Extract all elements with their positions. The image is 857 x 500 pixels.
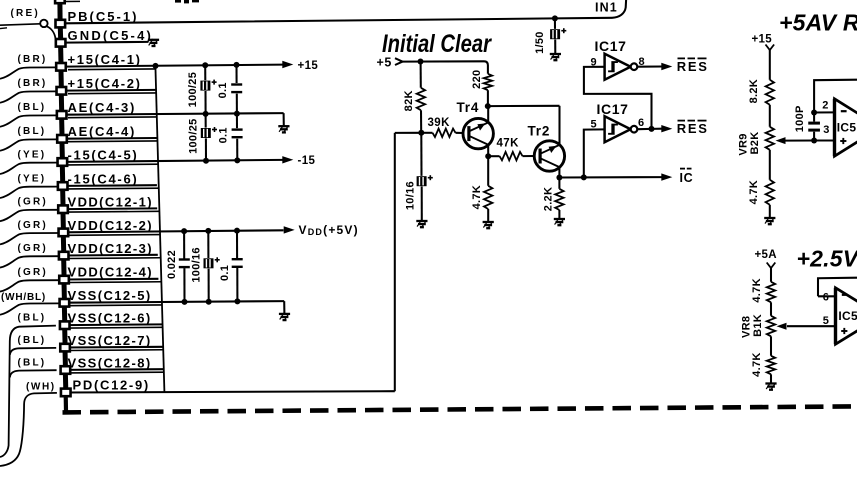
terminal (cut at top edge) <box>55 0 65 3</box>
svg-text:(BR): (BR) <box>18 78 48 89</box>
label plus IC5 <box>840 140 846 142</box>
svg-text:100P: 100P <box>794 105 806 132</box>
wire VDD row (C12-3) <box>65 254 158 257</box>
label box top edge below AE(C4-4) <box>68 140 157 143</box>
wire pin2 to IC5 <box>814 111 834 113</box>
terminal +15(C4-1) <box>56 63 66 71</box>
svg-text:+5A: +5A <box>755 249 777 261</box>
capacitor 0.1 lower (AE to -15) <box>236 114 238 129</box>
svg-text:100/25: 100/25 <box>188 118 200 153</box>
terminal VSS(C12-6) <box>60 321 70 329</box>
junction dot pin2 node <box>811 110 817 116</box>
svg-text:6: 6 <box>638 117 644 129</box>
svg-text:(BL): (BL) <box>18 335 47 346</box>
label minus IC5 lower <box>842 294 848 296</box>
op-amp IC17 lower gate (Schmitt inverter) <box>605 116 631 142</box>
ground (GND C5-4) <box>148 39 159 41</box>
wire +15 row (C4-2) <box>65 89 156 92</box>
wire GND row <box>65 41 149 44</box>
svg-text:+15(C4-1): +15(C4-1) <box>68 52 142 67</box>
svg-text:+15(C4-2): +15(C4-2) <box>68 76 142 91</box>
svg-text:4.7K: 4.7K <box>751 352 763 376</box>
chevron +5A feed <box>767 263 776 269</box>
wire left entry row VDD(C12-3) <box>0 256 59 267</box>
junction dot +15 / 100u25 <box>202 62 208 68</box>
svg-text:VR8: VR8 <box>740 316 752 338</box>
label box top edge below -15(C4-6) <box>68 187 159 190</box>
junction dot +15 / 0.1 <box>234 62 240 68</box>
wire PD row (C12-9) to riser <box>65 391 395 392</box>
wire IC5 feedback lower <box>818 278 857 297</box>
terminal VDD(C12-3) <box>59 252 69 260</box>
svg-text:(BL): (BL) <box>18 313 47 324</box>
svg-text:VDD(+5V): VDD(+5V) <box>299 223 359 237</box>
terminal VDD(C12-1) <box>58 205 68 213</box>
svg-text:47K: 47K <box>497 138 520 150</box>
svg-text:VDD(C12-1): VDD(C12-1) <box>68 195 154 210</box>
ground (VSS rail) <box>283 301 285 314</box>
svg-text:+15: +15 <box>752 34 773 46</box>
wire VDD row (C12-1) <box>65 207 157 210</box>
svg-text:(WH): (WH) <box>26 381 56 392</box>
svg-text:RES: RES <box>677 59 709 74</box>
svg-text:+2.5V: +2.5V <box>797 245 857 271</box>
capacitor 100/16 electrolytic <box>207 231 209 258</box>
branch to VSS(C12-8) row <box>10 370 57 377</box>
wire PB row to IN1 with curve up <box>65 0 626 23</box>
svg-text:PB(C5-1): PB(C5-1) <box>68 9 139 24</box>
capacitor 100/25 upper <box>204 65 206 80</box>
chevron +15 feed <box>766 45 775 51</box>
resistor 220 <box>484 74 492 90</box>
junction dot PB / 1u50 <box>552 15 558 21</box>
capacitor 0.1 upper (+15 to AE) <box>235 65 237 83</box>
ground (2.2K) <box>554 218 565 220</box>
wire left entry row VDD(C12-4) <box>0 280 59 291</box>
wire IC5 feedback upper <box>814 80 857 113</box>
label plus IC5 lower <box>841 330 847 332</box>
junction dot IC node <box>581 174 587 180</box>
svg-text:6: 6 <box>823 291 829 303</box>
resistor 82K <box>420 62 422 88</box>
svg-text:(WH/BL): (WH/BL) <box>1 292 46 303</box>
ground (VR9 chain) <box>764 217 775 219</box>
terminal -15(C4-6) <box>58 182 68 190</box>
wire collector node to Tr2 top <box>488 105 560 107</box>
capacitor 0.022 <box>183 231 185 258</box>
wire VSS row (C12-5) to ground rail <box>65 301 284 303</box>
svg-text:IC17: IC17 <box>595 38 627 54</box>
svg-text:IN1: IN1 <box>595 0 618 14</box>
junction dot VDD / 0.1 <box>234 228 240 234</box>
svg-text:(BL): (BL) <box>18 126 47 137</box>
terminal AE(C4-3) <box>57 111 67 119</box>
label box top edge below VSS(C12-5) <box>68 304 162 307</box>
svg-text:3: 3 <box>823 124 829 136</box>
wire left entry row AE(C4-4) <box>0 139 57 150</box>
capacitor 100P <box>813 113 815 122</box>
label box top edge below +15(C4-2) <box>68 92 156 95</box>
resistor 39K <box>421 132 432 134</box>
wire left entry row VDD(C12-1) <box>0 210 58 221</box>
ground (4.7K) <box>483 221 494 223</box>
label box top edge below -15(C4-5) <box>68 163 158 166</box>
wire AE row (C4-4) <box>65 137 157 140</box>
wire Tr4 collector stub <box>487 106 489 123</box>
arrow VDD(+5V) <box>284 226 295 233</box>
branch to VSS(C12-7) row <box>10 348 56 355</box>
svg-text:IC17: IC17 <box>597 101 629 117</box>
wire left entry row VSS(C12-5) <box>0 303 60 314</box>
wire loop down to GND terminal <box>46 26 55 38</box>
svg-text:0.1: 0.1 <box>219 265 231 281</box>
svg-text:4.7K: 4.7K <box>751 278 763 302</box>
wire left entry row VDD(C12-2) <box>0 233 59 244</box>
terminal VDD(C12-4) <box>59 276 69 284</box>
wire IC node up to IC17 pin5 <box>584 129 605 177</box>
wire -15 row (C4-6) <box>65 184 157 187</box>
label box top edge below VDD(C12-4) <box>68 281 161 284</box>
junction dot VSS / 100u16 <box>206 299 212 305</box>
harness wire V2 from bottom left corner to PD row <box>0 393 57 466</box>
junction dot +15 join at ladder <box>153 63 159 69</box>
wire pin3 to IC5 <box>814 139 834 141</box>
terminal VSS(C12-8) <box>61 366 71 374</box>
wire (RE) from left edge with loop <box>0 24 40 25</box>
potentiometer VR8 B1K <box>767 316 775 337</box>
terminal AE(C4-4) <box>57 135 67 143</box>
svg-text:(GR): (GR) <box>18 220 48 231</box>
ground (1/50) <box>550 53 561 55</box>
label box top edge below VDD(C12-3) <box>68 257 161 260</box>
svg-text:VSS(C12-7): VSS(C12-7) <box>68 333 152 348</box>
label box top edge below VSS(C12-6) <box>68 326 163 329</box>
resistor 47K <box>488 155 499 157</box>
svg-text:Initial Clear: Initial Clear <box>382 30 492 58</box>
terminal VSS(C12-5) <box>60 299 70 307</box>
ground (VR8 chain) <box>765 382 776 384</box>
cut-off text fragments at top edge <box>175 0 181 3</box>
svg-text:VSS(C12-6): VSS(C12-6) <box>68 311 152 326</box>
resistor 8.2K <box>766 80 774 105</box>
svg-text:PD(C12-9): PD(C12-9) <box>73 378 150 393</box>
label box top edge below VSS(C12-8) <box>68 371 164 374</box>
svg-text:IC5: IC5 <box>837 121 857 135</box>
wire +15 row (C4-1) to arrow <box>65 65 283 67</box>
wire PD riser (vertical) <box>394 133 396 391</box>
capacitor 100/25 lower <box>205 114 207 128</box>
label box top edge below AE(C4-3) <box>68 116 157 119</box>
junction dot VSS / 0.022 <box>182 299 188 305</box>
wire AE row (C4-3) to caps mid rail <box>65 113 284 115</box>
wire +5A to 4.7K <box>770 268 772 282</box>
svg-text:0.1: 0.1 <box>217 82 229 98</box>
arrow RES lower <box>652 128 662 130</box>
label box top edge below +15(C4-1) <box>68 68 156 71</box>
wire upper gate output to arrow <box>638 65 662 67</box>
svg-text:AE(C4-4): AE(C4-4) <box>68 124 137 139</box>
svg-text:RES: RES <box>677 121 709 136</box>
svg-text:4.7K: 4.7K <box>471 185 483 209</box>
svg-text:-15: -15 <box>298 155 316 167</box>
wire VSS row (C12-7) <box>65 346 163 349</box>
svg-text:100/25: 100/25 <box>187 72 199 107</box>
op-amp IC5 lower half <box>836 288 857 344</box>
junction dot -15 / 0.1 <box>234 157 240 163</box>
svg-text:10/16: 10/16 <box>405 181 417 210</box>
svg-text:5: 5 <box>823 315 829 327</box>
svg-text:0.022: 0.022 <box>166 250 178 279</box>
wire VDD row (C12-2) to arrow <box>65 230 284 232</box>
junction dot VDD / 0.022 <box>181 228 187 234</box>
svg-text:220: 220 <box>471 70 483 89</box>
label minus IC5 <box>841 110 847 112</box>
capacitor 10/16 electrolytic <box>420 133 422 176</box>
wire +15 to 8.2K <box>769 50 771 80</box>
terminal VSS(C12-7) <box>60 344 70 352</box>
svg-text:GND(C5-4): GND(C5-4) <box>68 28 154 43</box>
svg-text:(GR): (GR) <box>18 197 48 208</box>
svg-text:-15(C4-6): -15(C4-6) <box>68 171 139 186</box>
wire pin6 to IC5 <box>818 295 835 297</box>
svg-text:Tr2: Tr2 <box>528 123 551 138</box>
wire VDD row (C12-4) <box>65 278 159 281</box>
svg-text:+15: +15 <box>298 60 319 72</box>
connector bus bars <box>58 28 63 38</box>
wire -15 row (C4-5) to arrow <box>65 160 283 162</box>
svg-text:B1K: B1K <box>752 314 764 337</box>
wire Tr2 node to IC arrow <box>559 176 661 178</box>
svg-text:4.7K: 4.7K <box>748 180 760 204</box>
svg-text:(BL): (BL) <box>18 102 47 113</box>
ground (AE mid rail) <box>283 113 285 126</box>
junction dot Tr4 collector node <box>485 103 491 109</box>
svg-text:IC: IC <box>680 171 694 185</box>
ground (10/16) <box>416 220 427 222</box>
svg-text:5: 5 <box>591 119 597 131</box>
junction dot RES node <box>649 126 655 132</box>
svg-text:(BL): (BL) <box>18 357 47 368</box>
transistor Tr4 <box>463 118 493 148</box>
arrow RES upper <box>661 63 672 70</box>
svg-text:+5AV Re: +5AV Re <box>779 9 857 35</box>
svg-text:VDD(C12-4): VDD(C12-4) <box>68 265 154 280</box>
wire Tr4 emitter to 47K node <box>487 145 489 157</box>
svg-text:(YE): (YE) <box>18 173 47 184</box>
arrow +15 <box>282 61 293 68</box>
connector C5/C4/C12 pin strip bus <box>55 0 199 413</box>
svg-text:39K: 39K <box>428 117 451 129</box>
svg-text:VSS(C12-5): VSS(C12-5) <box>68 288 152 303</box>
resistor 4.7K (upper, VR8 chain) <box>767 282 775 303</box>
arrow IC out <box>661 173 672 180</box>
wire left entry row +15(C4-2) <box>0 91 57 102</box>
wire left entry row -15(C4-6) <box>0 187 58 198</box>
svg-text:(BR): (BR) <box>18 54 48 65</box>
label box top edge below VSS(C12-7) <box>68 349 163 352</box>
terminal -15(C4-5) <box>58 158 68 166</box>
wire left entry row +15(C4-1) <box>0 67 56 78</box>
svg-text:(GR): (GR) <box>18 267 48 278</box>
capacitor 0.1 (VDD) <box>236 231 238 259</box>
label box top edge below VDD(C12-1) <box>68 210 159 213</box>
harness wire V1 from bottom left (feeds BL rows) <box>0 326 56 457</box>
svg-text:VR9: VR9 <box>737 133 749 155</box>
chevron +5 input <box>395 58 403 65</box>
wire lower gate output to node <box>638 128 652 130</box>
svg-text:VSS(C12-8): VSS(C12-8) <box>68 355 152 370</box>
wire left entry row AE(C4-3) <box>0 115 57 126</box>
wire Tr2 emitter down <box>558 167 560 177</box>
svg-text:-15(C4-5): -15(C4-5) <box>68 147 139 162</box>
svg-text:Tr4: Tr4 <box>457 100 480 115</box>
dashed section separator <box>63 406 857 412</box>
junction dot Tr2 output node <box>556 175 562 181</box>
wire (top fragment) <box>65 0 80 2</box>
junction dot 47K node <box>485 153 491 159</box>
connector label box ladder (right edge) <box>155 66 164 392</box>
svg-text:8.2K: 8.2K <box>748 79 760 103</box>
junction dot Tr4 base node <box>418 130 424 136</box>
wire left entry row -15(C4-5) <box>0 163 58 174</box>
wire VSS row (C12-6) <box>65 323 162 326</box>
wire +5 feed to 220 <box>403 61 488 74</box>
junction dot AE / 0.1 <box>234 111 240 117</box>
junction dot VDD / 100u16 <box>205 228 211 234</box>
resistor 2.2K <box>558 178 560 189</box>
svg-text:VDD(C12-3): VDD(C12-3) <box>68 241 154 256</box>
svg-text:1/50: 1/50 <box>534 31 546 54</box>
svg-text:100/16: 100/16 <box>190 247 202 282</box>
terminal PD(C12-9) <box>61 389 71 397</box>
svg-text:2: 2 <box>822 99 828 111</box>
svg-text:IC5: IC5 <box>838 309 857 323</box>
svg-text:0.1: 0.1 <box>218 127 230 143</box>
capacitor 1/50 electrolytic <box>554 18 556 29</box>
svg-text:B2K: B2K <box>749 132 761 155</box>
wiper arrow VR9 <box>776 137 786 144</box>
resistor 4.7K (Tr4) <box>487 156 489 186</box>
svg-text:+5: +5 <box>377 56 392 70</box>
terminal +15(C4-2) <box>57 87 67 95</box>
op-amp IC17 upper gate (Schmitt inverter) <box>605 54 631 80</box>
svg-text:VDD(C12-2): VDD(C12-2) <box>68 218 154 233</box>
svg-text:(GR): (GR) <box>18 243 48 254</box>
terminal VDD(C12-2) <box>59 229 69 237</box>
resistor 4.7K (lower, VR8 chain) <box>767 356 775 375</box>
svg-text:(YE): (YE) <box>18 149 47 160</box>
svg-text:9: 9 <box>591 57 597 69</box>
resistor 4.7K (VR9 chain) <box>766 180 774 205</box>
transistor Tr2 <box>534 141 564 171</box>
potentiometer VR9 B2K <box>766 127 774 150</box>
wire feedback loop lower output to upper input <box>584 67 652 129</box>
wiper arrow VR8 <box>777 323 787 330</box>
wire node to PD riser <box>395 132 422 134</box>
arrow -15 <box>282 156 293 163</box>
junction dot +5 / 82K <box>418 59 424 65</box>
wire VSS row (C12-8) <box>65 368 164 371</box>
junction dot AE / 100u25 <box>203 111 209 117</box>
terminal PB(C5-1) <box>56 20 66 28</box>
svg-text:82K: 82K <box>403 90 415 111</box>
terminal GND(C5-4) <box>56 39 66 47</box>
junction dot -15 / 100u25 <box>203 158 209 164</box>
junction dot pin3 node <box>811 138 817 144</box>
svg-text:(RE): (RE) <box>11 8 40 19</box>
junction dot VSS / 0.1 <box>234 298 240 304</box>
label box top edge below VDD(C12-2) <box>68 234 160 237</box>
svg-text:AE(C4-3): AE(C4-3) <box>68 100 137 115</box>
op-amp IC5 upper half <box>835 99 857 156</box>
svg-text:2.2K: 2.2K <box>543 187 555 211</box>
